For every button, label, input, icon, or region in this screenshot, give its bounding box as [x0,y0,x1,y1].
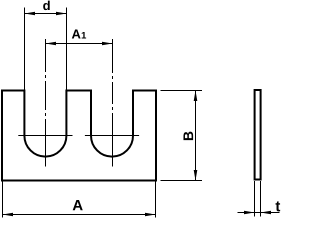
dimension t arrow right [261,211,272,215]
dimension A arrow left [3,213,14,217]
dimension A1 line [46,43,113,45]
dimension t extension line left [254,181,256,217]
dimension A1 arrow right [102,42,113,46]
dimension B extension line top [161,90,203,92]
dimension t arrow left [244,211,255,215]
dimension A extension line left [2,181,4,218]
dimension t line [238,212,280,214]
dimension A arrow right [145,213,156,217]
centerline slot 1 horizontal [18,135,72,137]
centerline slot 1 vertical [45,39,47,167]
front view body outline [2,91,156,181]
dimension d line [25,13,67,15]
dimension d extension line right [66,8,68,92]
dimension A extension line right [155,181,157,218]
dimension d extension line left [24,8,26,92]
dimension B extension line bottom [161,180,203,182]
dimension B arrow bottom [194,170,198,181]
dimension A1 arrow left [46,42,57,46]
dimension B arrow top [194,91,198,102]
label t [276,201,281,211]
label A [73,200,83,210]
label B [183,132,193,141]
label A1 [72,30,86,39]
centerline slot 2 horizontal [85,135,139,137]
dimension d arrow left [25,12,36,16]
label d [43,1,50,11]
dimension t extension line right [260,181,262,217]
dimension A line [3,214,156,216]
centerline slot 2 vertical [112,39,114,167]
dimension B line [195,91,197,181]
side view outline [255,90,261,180]
dimension d arrow right [56,12,67,16]
